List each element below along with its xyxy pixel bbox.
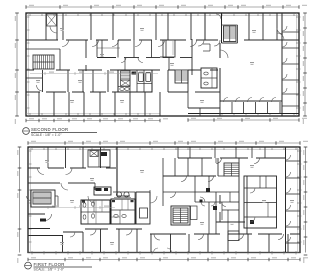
svg-text:SCALE : 1/8" = 1'-0": SCALE : 1/8" = 1'-0" [31, 133, 62, 137]
svg-text:FIRST FLOOR: FIRST FLOOR [34, 262, 65, 267]
svg-text:SCALE : 1/8" = 1'-0": SCALE : 1/8" = 1'-0" [34, 268, 65, 272]
svg-text:SECOND FLOOR: SECOND FLOOR [31, 127, 68, 132]
